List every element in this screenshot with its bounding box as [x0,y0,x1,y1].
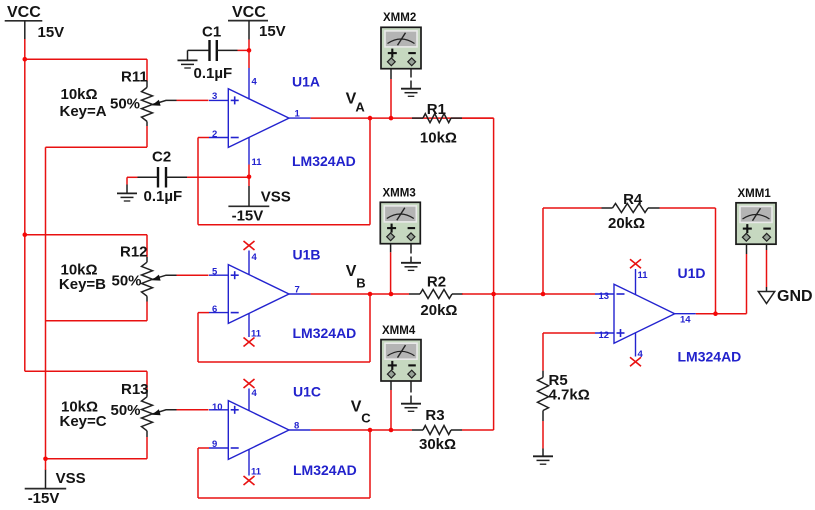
svg-text:8: 8 [294,420,299,431]
junction node VA meter [389,116,394,121]
svg-text:R13: R13 [121,381,149,398]
junction node C1-VCC [247,48,252,53]
svg-text:7: 7 [295,284,300,295]
power symbol VCC (top-left) [5,21,43,40]
no-connect X U1B pin4 [244,241,255,250]
wire C2 left lead [127,177,158,184]
junction node VB meter [389,292,394,297]
wire R3 right to bus [462,429,494,431]
potentiometer R13 [142,390,177,437]
wire C2 right lead [166,176,187,178]
svg-text:0.1µF: 0.1µF [144,188,183,205]
junction node VA feedback [368,116,373,121]
svg-text:R2: R2 [427,273,446,290]
wiper arrow R12 [152,275,161,281]
svg-text:11: 11 [252,157,263,168]
wire U1B output row [311,293,409,295]
svg-text:V: V [346,263,357,280]
svg-text:20kΩ: 20kΩ [608,215,645,232]
svg-text:4.7kΩ: 4.7kΩ [549,387,590,404]
svg-text:4: 4 [252,252,258,263]
svg-text:12: 12 [599,330,610,341]
wire XMM1 plus probe [746,244,748,314]
wire XMM4 plus probe [390,381,392,430]
wire R12 wiper to U1B pin5 [177,274,209,276]
svg-text:LM324AD: LM324AD [293,325,357,341]
svg-text:3: 3 [212,91,217,102]
wire summing bus vertical [493,118,495,430]
ground (XMM4) [401,404,421,412]
resistor R4 [602,204,660,213]
no-connect X U1B pin11 [244,338,255,347]
wire C2 to U1A pin11 node [187,176,249,178]
power symbol VSS (below U1A) [228,186,269,206]
svg-text:B: B [356,275,365,290]
ground (XMM3) [401,263,421,271]
svg-text:15V: 15V [259,23,286,40]
svg-text:Key=A: Key=A [60,103,107,120]
svg-text:VCC: VCC [7,4,41,21]
wire VCC rail left vertical [24,39,26,371]
resistor R2 [409,290,463,299]
capacitor C1 [210,40,217,61]
svg-text:U1A: U1A [292,73,320,89]
wire C1 to VCC node [238,49,250,51]
ground (R5) [533,449,553,465]
multimeter XMM2 [381,27,421,68]
svg-text:50%: 50% [111,402,141,419]
wire U1B feedback [198,294,370,362]
wire U1C output row [311,429,412,431]
svg-text:U1C: U1C [293,383,321,399]
capacitor C2 [158,167,166,188]
power symbol VCC (above U1A) [228,21,268,40]
wire VSS rail left vertical [45,147,47,470]
wire R12 bottom to VSS rail [46,302,148,321]
ground (C1) [178,60,198,68]
wiper arrow R11 [152,100,161,106]
svg-text:-15V: -15V [232,208,264,225]
wire U1A feedback [198,118,370,225]
svg-text:C1: C1 [202,24,221,41]
svg-text:50%: 50% [110,95,140,112]
wire U1A pin11 to VSS node [248,165,250,187]
svg-text:VSS: VSS [261,188,291,205]
wire XMM1 minus probe [766,244,768,287]
svg-text:4: 4 [252,76,258,87]
multimeter XMM3 [380,202,420,243]
multimeter XMM4 [381,340,421,381]
svg-text:11: 11 [251,328,262,339]
svg-text:V: V [351,398,362,415]
junction node pin11-VSS-C2 [247,175,252,180]
ground GND symbol (XMM1) [758,287,774,304]
svg-text:XMM2: XMM2 [383,12,416,24]
junction node VC meter [389,428,394,433]
svg-text:10kΩ: 10kΩ [420,129,457,146]
junction node R4 branch [541,292,546,297]
wire VCC to R13 top [25,371,147,390]
op-amp U1B [209,251,311,338]
svg-text:1: 1 [295,108,301,119]
junction node VCC-R12 [23,232,28,237]
junction node VC feedback [368,428,373,433]
wire VCC to R12 top [25,235,147,257]
svg-text:Key=B: Key=B [59,276,106,293]
svg-text:R12: R12 [120,244,148,261]
no-connect X U1C pin4 [244,379,255,388]
svg-text:XMM4: XMM4 [382,325,416,337]
multimeter XMM1 [736,203,776,244]
potentiometer R11 [142,81,177,126]
no-connect X U1D pin4 [630,357,641,366]
svg-text:4: 4 [252,388,258,399]
ground (C2) [117,185,137,202]
svg-text:20kΩ: 20kΩ [420,302,457,319]
svg-text:VSS: VSS [56,470,86,487]
svg-text:XMM3: XMM3 [383,187,416,199]
svg-text:R1: R1 [427,101,446,118]
ground (XMM2) [401,89,421,97]
svg-text:11: 11 [251,466,262,477]
junction node VCC-R11 [23,57,28,62]
wire R11 wiper to U1A pin3 [177,99,209,101]
wire C1 left lead [188,50,210,59]
svg-text:2: 2 [212,129,217,140]
svg-text:0.1µF: 0.1µF [194,65,233,82]
svg-text:U1B: U1B [293,247,321,263]
svg-text:GND: GND [777,288,813,305]
svg-text:10: 10 [212,402,223,413]
wire XMM2 minus probe [410,69,412,89]
svg-text:XMM1: XMM1 [738,188,772,200]
svg-text:14: 14 [680,314,691,325]
svg-text:6: 6 [212,304,217,315]
junction node VSS rail bottom [43,457,48,462]
wire U1D output [696,313,747,315]
wire XMM3 plus probe [390,244,392,294]
svg-text:4: 4 [638,349,644,360]
wire R4 feedback loop [543,208,716,314]
wire XMM3 minus probe [410,244,412,263]
junction node bus-R2 [491,292,496,297]
svg-text:R3: R3 [425,407,444,424]
resistor R3 [412,426,462,435]
svg-text:-15V: -15V [28,490,60,507]
svg-text:LM324AD: LM324AD [293,462,357,478]
wire VCC to R11 top [25,59,147,81]
wire R11 bottom to VSS rail [46,126,148,147]
svg-text:R11: R11 [121,68,148,85]
wire R13 bottom to VSS rail [46,437,148,459]
op-amp U1A [209,68,311,165]
wire U1C feedback [198,430,370,498]
wire XMM4 minus probe [410,381,412,403]
wire U1D pin12 to R5 [543,333,595,449]
svg-text:R4: R4 [623,191,643,208]
svg-text:LM324AD: LM324AD [678,349,742,365]
resistor R5 [538,371,549,421]
no-connect X U1C pin11 [244,476,255,485]
svg-text:11: 11 [638,270,649,281]
wire XMM2 plus probe [390,69,392,118]
junction node U1D output [713,311,718,316]
svg-text:C: C [361,410,371,425]
op-amp U1D [595,269,696,357]
svg-text:VCC: VCC [232,4,266,21]
op-amp U1C [209,389,311,476]
wire R13 wiper to U1C pin10 [177,409,209,411]
wire VCC node to U1A pin4 [248,40,250,69]
svg-text:15V: 15V [38,24,65,41]
wire C1 right lead [217,49,238,51]
power symbol VSS (bottom-left) [25,470,66,489]
svg-text:A: A [355,99,365,114]
junction node VB feedback [368,292,373,297]
svg-text:10kΩ: 10kΩ [61,86,98,103]
svg-text:9: 9 [212,439,217,450]
svg-text:30kΩ: 30kΩ [419,436,456,453]
svg-text:LM324AD: LM324AD [292,153,356,169]
potentiometer R12 [142,257,177,302]
svg-text:Key=C: Key=C [60,413,107,430]
svg-text:C2: C2 [152,149,171,166]
no-connect X U1D pin11 [630,259,641,268]
resistor R1 [412,114,462,123]
wire R1 right to bus [462,117,494,119]
wire R2 to U1D pin13 row [462,293,595,295]
svg-text:5: 5 [212,266,218,277]
wire U1A output row [311,117,494,119]
wiper arrow R13 [152,409,161,415]
svg-text:13: 13 [599,291,610,302]
svg-text:50%: 50% [112,273,142,290]
svg-text:U1D: U1D [678,265,706,281]
